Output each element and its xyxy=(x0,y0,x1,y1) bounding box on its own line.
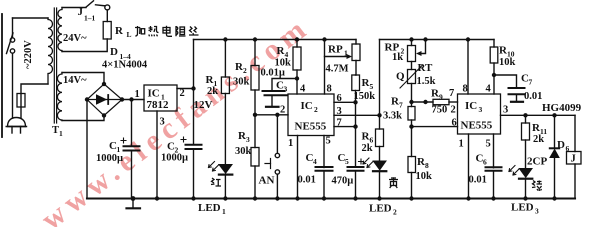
svg-text:8: 8 xyxy=(425,161,429,170)
char 加 (heating wire label) xyxy=(135,26,145,36)
svg-text:1.5k: 1.5k xyxy=(417,76,436,87)
svg-text:7: 7 xyxy=(337,118,342,129)
wire: node down to AN button xyxy=(276,115,278,153)
svg-text:12V: 12V xyxy=(194,99,213,111)
wire: R4 to pin4 xyxy=(296,70,298,94)
junction dot R1 at bus xyxy=(223,37,227,41)
svg-text:T: T xyxy=(52,125,59,136)
wire: node to C3 xyxy=(272,79,297,91)
wire: pin3 line down to relay J xyxy=(574,115,576,151)
svg-text:6: 6 xyxy=(483,158,487,167)
thermistor RT 1.5k xyxy=(408,70,416,84)
wire: R9 to IC3 pin2 xyxy=(449,101,458,103)
svg-text:5: 5 xyxy=(370,82,374,91)
wire: D6 to rail xyxy=(554,158,556,199)
svg-text:Q: Q xyxy=(396,71,405,83)
junction dot on R9 wire xyxy=(423,100,427,104)
wire: R7 to pin6 node xyxy=(411,120,413,157)
wire: LED2 to rail xyxy=(379,172,381,198)
wire: 14V bottom to bridge bottom vertex xyxy=(62,116,104,121)
C1 plus sign xyxy=(121,138,126,143)
svg-text:30k: 30k xyxy=(235,146,252,157)
svg-text:6: 6 xyxy=(452,118,457,129)
svg-text:10k: 10k xyxy=(275,58,292,69)
svg-text:8: 8 xyxy=(327,84,332,95)
second stage supply bus (from IC2 pin3) xyxy=(380,39,495,41)
IC2 pin6 stub xyxy=(334,101,356,103)
IC3 pin8 wire from bus xyxy=(466,37,470,41)
svg-text:1: 1 xyxy=(344,49,348,58)
IC2 pin5 wire down xyxy=(323,136,325,199)
junction dot IC1 output node xyxy=(191,86,195,90)
junction dot pin2 node left xyxy=(253,113,257,117)
wire: IC2 pin2 horizontal xyxy=(255,114,288,116)
IC3 pin5 wire down xyxy=(493,134,495,199)
C3 lower lead and end bar xyxy=(271,96,273,106)
svg-text:4×1N4004: 4×1N4004 xyxy=(102,60,148,71)
junction dot C1 tap xyxy=(129,97,133,101)
LED2 emission arrows xyxy=(363,158,369,164)
relay contact J1-1 blade xyxy=(86,1,94,7)
char 丝 xyxy=(189,27,199,36)
svg-text:0.01: 0.01 xyxy=(524,91,542,102)
svg-text:8: 8 xyxy=(463,84,468,95)
junction dot D6 branch xyxy=(552,113,556,117)
ground symbol xyxy=(132,199,134,208)
svg-text:7: 7 xyxy=(449,88,454,99)
svg-text:7: 7 xyxy=(529,78,533,87)
switch S (power switch) xyxy=(10,38,14,42)
resistor R6 2k xyxy=(376,129,384,147)
svg-text:1: 1 xyxy=(135,89,140,100)
wire: output node down to C2 xyxy=(193,89,195,145)
char 阻 xyxy=(176,26,186,36)
wire: output node up to +12V bus xyxy=(193,40,195,89)
RP2 wiper from bus xyxy=(423,37,427,41)
RP1 potentiometer body xyxy=(355,40,357,45)
svg-text:2k: 2k xyxy=(533,134,544,145)
resistor R11 2k xyxy=(522,123,530,140)
junction dot R11 branch xyxy=(523,113,527,117)
svg-text:9: 9 xyxy=(439,93,443,102)
resistor RL (heating wire) xyxy=(103,22,111,40)
LED2 (yellow) triangle and bar xyxy=(373,161,386,170)
svg-text:4: 4 xyxy=(313,157,317,166)
wire: C1 to rail xyxy=(131,152,133,199)
svg-text:3.3k: 3.3k xyxy=(383,111,402,122)
svg-text:10k: 10k xyxy=(416,171,433,182)
svg-text:2: 2 xyxy=(243,66,247,75)
wire: C2 to rail xyxy=(193,150,195,199)
transformer 14V secondary winding xyxy=(57,73,62,121)
junction dot R2 at bus xyxy=(253,37,257,41)
char 绿 (green, LED3) xyxy=(532,181,542,192)
svg-text:3: 3 xyxy=(160,117,165,128)
wire: down to R11 xyxy=(525,115,527,123)
svg-text:2: 2 xyxy=(393,208,397,217)
svg-text:2k: 2k xyxy=(362,143,373,154)
LED3 (green) triangle and bar xyxy=(519,169,532,178)
svg-text:3: 3 xyxy=(479,105,483,114)
+12V top bus (left) xyxy=(194,39,357,41)
capacitor C6 0.01 plates xyxy=(486,169,502,171)
fuse FU xyxy=(17,94,25,108)
svg-text:1000µ: 1000µ xyxy=(161,153,188,164)
wire: node to C7 xyxy=(494,75,517,87)
wire: switch upper lead xyxy=(12,18,14,38)
wire: LED3 to rail xyxy=(525,180,527,199)
wire: mains top from switch to primary top xyxy=(13,17,49,19)
svg-text:D: D xyxy=(557,139,565,151)
C5 plus sign xyxy=(359,159,364,164)
svg-text:3: 3 xyxy=(337,106,342,117)
IC3 pin1 wire to rail xyxy=(468,134,470,199)
capacitor C4 0.01 plates xyxy=(316,168,333,170)
C2 plus sign xyxy=(181,137,186,142)
wire: down to D6 xyxy=(554,115,556,148)
wire: R2 to pin2 node xyxy=(254,90,256,115)
svg-text:AN: AN xyxy=(259,175,275,187)
svg-text:2k: 2k xyxy=(207,86,218,97)
svg-text:1: 1 xyxy=(459,139,464,150)
svg-text:NE555: NE555 xyxy=(461,120,493,132)
RP2 potentiometer body xyxy=(408,46,416,62)
svg-text:1: 1 xyxy=(59,129,63,138)
watermark www.elecfans.com xyxy=(35,10,316,237)
svg-text:10k: 10k xyxy=(499,57,516,68)
wire: bridge negative (left vertex) down to ground rail xyxy=(86,100,88,199)
junction dot R10/C7 node xyxy=(492,73,496,77)
svg-text:470µ: 470µ xyxy=(332,176,354,187)
wire: C5 to rail xyxy=(355,171,357,199)
char 红 (red, LED1) xyxy=(211,178,221,186)
svg-text:3: 3 xyxy=(246,135,250,144)
svg-text:30k: 30k xyxy=(233,77,250,88)
scan edge artifact line xyxy=(1,14,3,137)
svg-text:0.01: 0.01 xyxy=(298,175,316,186)
plug (AC mains plug) xyxy=(8,118,26,127)
wire: AN to rail xyxy=(276,174,278,198)
IC2 pin1 wire to rail xyxy=(297,136,299,199)
svg-text:750: 750 xyxy=(432,105,448,116)
diode D6 2CP (points up) xyxy=(550,147,559,149)
svg-text:IC: IC xyxy=(301,100,313,112)
wire bus to RP2 xyxy=(411,40,413,46)
svg-text:0.01µ: 0.01µ xyxy=(261,68,285,79)
resistor R1 2k xyxy=(221,77,229,94)
IC3 NE555 box xyxy=(458,94,501,134)
wire: R5 down through pin6/pin7 nodes to C5 xyxy=(355,91,357,167)
svg-text:LED: LED xyxy=(369,203,392,215)
svg-text:IC: IC xyxy=(465,100,477,112)
wire: bus down to pin3 node and R6 xyxy=(379,40,381,130)
svg-text:3: 3 xyxy=(503,105,508,116)
svg-text:~220V: ~220V xyxy=(23,40,34,69)
svg-text:0.01: 0.01 xyxy=(469,175,487,186)
IC2 NE555 box xyxy=(288,94,334,136)
svg-text:5: 5 xyxy=(486,139,491,150)
wire: IC1 pin3 to rail xyxy=(156,111,158,199)
svg-text:5: 5 xyxy=(345,157,349,166)
wire: R11 to LED3 xyxy=(525,140,527,169)
svg-text:150k: 150k xyxy=(354,91,376,102)
wire: 24V top to relay contact xyxy=(62,7,86,9)
capacitor C7 0.01 plates xyxy=(509,87,525,89)
resistor R10 10k xyxy=(490,47,498,63)
C7 lower lead and end bar xyxy=(516,95,518,101)
wire: node down to R3 xyxy=(254,115,256,148)
svg-text:J: J xyxy=(571,154,576,165)
capacitor C1 1000u plates xyxy=(124,145,140,147)
wire: RL bottom to 24V winding bottom xyxy=(62,39,107,52)
svg-text:3: 3 xyxy=(535,207,539,216)
svg-text:IC: IC xyxy=(148,88,160,100)
resistor R4 10k xyxy=(293,47,301,70)
wire: node to R9 xyxy=(412,101,434,103)
junction dot R4/C3 node xyxy=(295,76,299,80)
wire: primary bottom to fuse xyxy=(21,84,48,118)
capacitor C5 470u plates xyxy=(348,168,364,170)
wire: IC2 pin8 from bus xyxy=(322,37,326,41)
wire: down to C1 xyxy=(131,100,133,146)
IC2 pin7 stub xyxy=(334,126,356,128)
svg-text:1k: 1k xyxy=(392,52,403,63)
svg-text:7812: 7812 xyxy=(147,99,170,111)
svg-text:14V~: 14V~ xyxy=(63,75,87,86)
bridge rectifier D1-4 diamond xyxy=(87,84,122,116)
wire: relay to rail xyxy=(574,164,576,199)
svg-text:1: 1 xyxy=(222,207,226,216)
transformer T1 core xyxy=(53,8,55,123)
svg-text:J: J xyxy=(78,6,84,18)
svg-text:1: 1 xyxy=(288,138,293,149)
junction dot pin6 node xyxy=(409,124,413,128)
svg-text:4: 4 xyxy=(486,84,492,95)
wire: R6 to LED2 xyxy=(379,147,381,162)
wire: bus to R1 xyxy=(224,40,226,78)
svg-text:2: 2 xyxy=(280,105,285,116)
RP1 wiper arm xyxy=(325,56,350,58)
junction dot AN branch xyxy=(275,113,279,117)
char 电 xyxy=(163,26,172,37)
svg-text:2: 2 xyxy=(451,105,456,116)
capacitor C3 0.01u plates xyxy=(263,90,285,92)
ground rail (bottom bus) xyxy=(87,197,575,199)
svg-text:2: 2 xyxy=(180,88,185,99)
bridge diode symbol xyxy=(97,95,107,104)
resistor R5 150k xyxy=(352,75,360,91)
wire: R1 to LED1 xyxy=(224,94,226,165)
wire: bridge positive to IC1 input xyxy=(122,99,144,101)
svg-text:HG4099: HG4099 xyxy=(542,102,582,114)
svg-text:NE555: NE555 xyxy=(295,121,327,133)
wire: bus corner down to R10 xyxy=(493,40,495,48)
relay coil J box xyxy=(567,152,582,165)
capacitor C2 1000u plates xyxy=(186,144,202,146)
junction dot RP2 at bus xyxy=(409,37,413,41)
bridge vertex junction dots xyxy=(102,82,106,86)
transformer 24V secondary winding xyxy=(58,8,62,52)
svg-text:6: 6 xyxy=(566,144,570,153)
wire: R8 to rail xyxy=(411,173,413,199)
wire: bus to R2 xyxy=(254,40,256,66)
resistor R8 10k xyxy=(408,157,416,173)
svg-text:2: 2 xyxy=(314,105,318,114)
char 黄 (yellow, LED2) xyxy=(389,177,398,188)
svg-text:1000µ: 1000µ xyxy=(96,153,123,164)
wire: IC3 pin6 horizontal xyxy=(412,126,458,128)
svg-text:LED: LED xyxy=(198,202,221,214)
wire: contact to RL xyxy=(106,10,108,22)
svg-text:RP: RP xyxy=(328,44,343,56)
wire RT to R7 node xyxy=(411,84,413,107)
junction dot R7 top node xyxy=(409,100,413,104)
svg-text:24V~: 24V~ xyxy=(63,33,87,44)
wire: LED1 to rail xyxy=(224,176,226,199)
char 热 xyxy=(149,26,159,36)
resistor R2 30k xyxy=(251,66,259,91)
wire: R3 to rail xyxy=(254,166,256,199)
IC1 pin2 output wire xyxy=(177,88,194,90)
resistor R3 30k xyxy=(251,148,259,167)
resistor R7 3.3k xyxy=(408,107,415,121)
wire RP2 to RT xyxy=(411,62,413,70)
svg-text:5: 5 xyxy=(326,136,331,147)
IC2 pin3 stub xyxy=(334,114,380,116)
wire: bus to R4 xyxy=(296,40,298,48)
svg-text:RT: RT xyxy=(418,62,434,74)
svg-text:3: 3 xyxy=(284,85,288,94)
svg-text:4.7M: 4.7M xyxy=(326,64,349,75)
wire RP1 to R5 xyxy=(355,61,358,76)
svg-text:LED: LED xyxy=(511,202,534,214)
resistor R9 750 (horizontal) xyxy=(433,99,449,104)
junction dot at rail / ground xyxy=(131,196,136,201)
svg-text:1–1: 1–1 xyxy=(84,14,96,23)
LED1 emission arrows xyxy=(209,162,215,168)
LED1 (red) triangle and bar xyxy=(219,165,232,174)
svg-text:7: 7 xyxy=(399,101,403,110)
relay contact J1-1 fixed stub and terminal xyxy=(96,5,105,6)
wire: R10 to IC3 pin4 xyxy=(493,63,495,94)
svg-text:6: 6 xyxy=(337,93,342,104)
wire: 14V top to bridge top vertex xyxy=(62,73,104,85)
svg-text:4: 4 xyxy=(300,84,306,95)
push button AN xyxy=(275,153,279,157)
junction dot R4 at bus xyxy=(295,37,299,41)
LED3 emission arrows xyxy=(509,166,515,172)
svg-text:L: L xyxy=(127,30,132,39)
svg-text:D: D xyxy=(110,46,118,58)
IC1 7812 box xyxy=(144,85,177,111)
IC3 pin3 output wire xyxy=(501,114,576,116)
svg-text:R: R xyxy=(115,25,124,37)
wire: switch to plug left prong xyxy=(12,53,14,118)
transformer T1 primary winding xyxy=(48,18,53,84)
svg-text:2CP: 2CP xyxy=(527,156,547,168)
